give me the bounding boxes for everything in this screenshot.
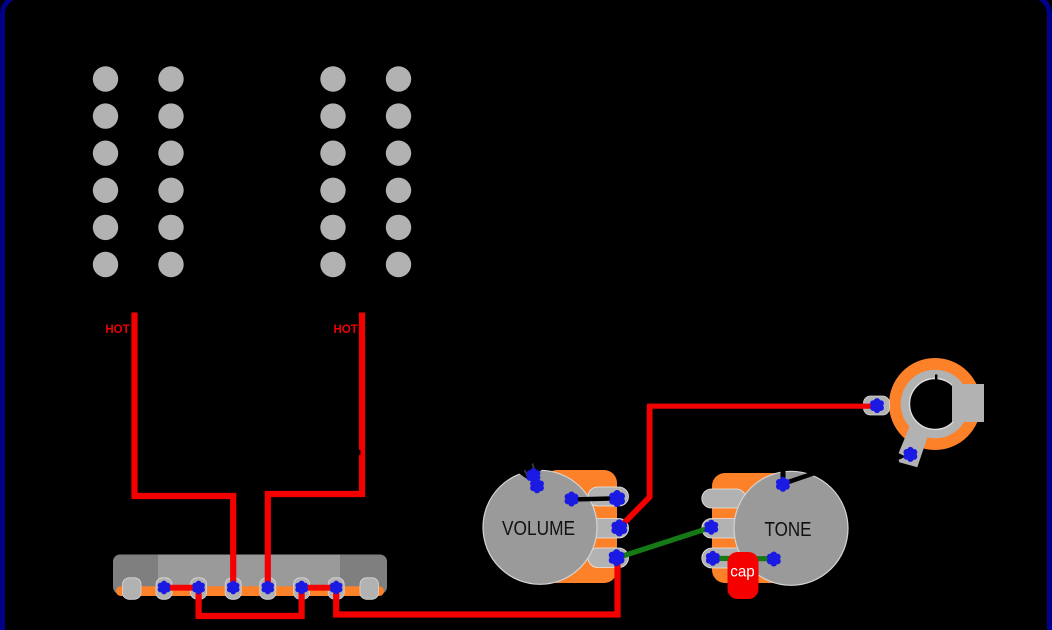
solder joint volume casing mid	[565, 492, 579, 507]
switch lug L3	[225, 578, 241, 600]
svg-text:TONE: TONE	[765, 519, 812, 541]
solder joint volume lug 3	[609, 549, 625, 566]
svg-text:HOT: HOT	[334, 324, 358, 336]
tone pot body	[702, 471, 848, 585]
switch lug L2	[191, 578, 207, 600]
volume pot body	[483, 458, 629, 584]
solder joint switch L5	[295, 581, 308, 595]
switch lug L4	[260, 578, 276, 600]
output jack J1	[864, 358, 985, 467]
solder joint switch L2	[192, 581, 205, 595]
wire tone lug C to tone casing (green)	[713, 556, 770, 561]
solder joint tone lug C	[706, 551, 720, 566]
solder joint tone casing right	[767, 552, 781, 567]
wire switch L5 to L6 (red)	[302, 585, 337, 591]
pickup P1 (neck humbucker)	[93, 66, 184, 277]
wire volume lug 2 to jack tip (red)	[619, 406, 649, 528]
wire switch L6 to volume lug 3 (red)	[336, 558, 617, 615]
switch lug L5	[294, 578, 310, 600]
solder joint volume casing top b	[530, 478, 544, 493]
wire tone casing ground stub vertical (black)	[781, 458, 786, 484]
wire volume casing ground tick b (black)	[533, 464, 535, 472]
capacitor cap	[728, 552, 759, 599]
solder joint tone casing top	[776, 477, 790, 492]
solder joint switch L1	[158, 581, 171, 595]
solder joint volume lug 2	[611, 519, 627, 536]
solder joint volume lug 1	[609, 490, 625, 507]
wire P2 hot to switch lug L4 (red)	[268, 313, 362, 588]
wire volume lug 3 to tone lug B (green)	[618, 527, 711, 557]
svg-text:HOT: HOT	[105, 324, 129, 336]
switch lug L7 (unused)	[360, 578, 379, 600]
solder joint switch L6	[330, 581, 343, 595]
wire switch L2 to L5 loop (red)	[199, 588, 302, 617]
pickup P2 (bridge humbucker)	[320, 66, 411, 277]
wire switch L1 to L2 (red)	[164, 585, 199, 591]
switch lug L0 (unused)	[123, 578, 142, 600]
switch lug L1	[156, 578, 172, 600]
wire tone casing ground stub diagonal (black)	[784, 472, 819, 484]
wire volume casing to lug 1 (black)	[572, 498, 617, 499]
wire nick artifact on P2 hot	[358, 450, 360, 455]
solder joint jack sleeve arm	[903, 447, 917, 462]
switch SW1 body	[113, 555, 387, 597]
wire P1 hot to switch lug L3 (red)	[135, 313, 234, 588]
switch lug L6	[328, 578, 344, 600]
solder joint volume casing top a	[527, 468, 541, 483]
solder joint switch L3	[227, 581, 240, 595]
solder joint switch L4	[262, 581, 275, 595]
svg-text:cap: cap	[730, 564, 755, 581]
solder joint tone lug B	[704, 520, 718, 535]
solder joint jack tip	[870, 398, 884, 413]
wire volume casing ground tick a (black)	[525, 470, 529, 479]
svg-text:VOLUME: VOLUME	[502, 518, 575, 540]
